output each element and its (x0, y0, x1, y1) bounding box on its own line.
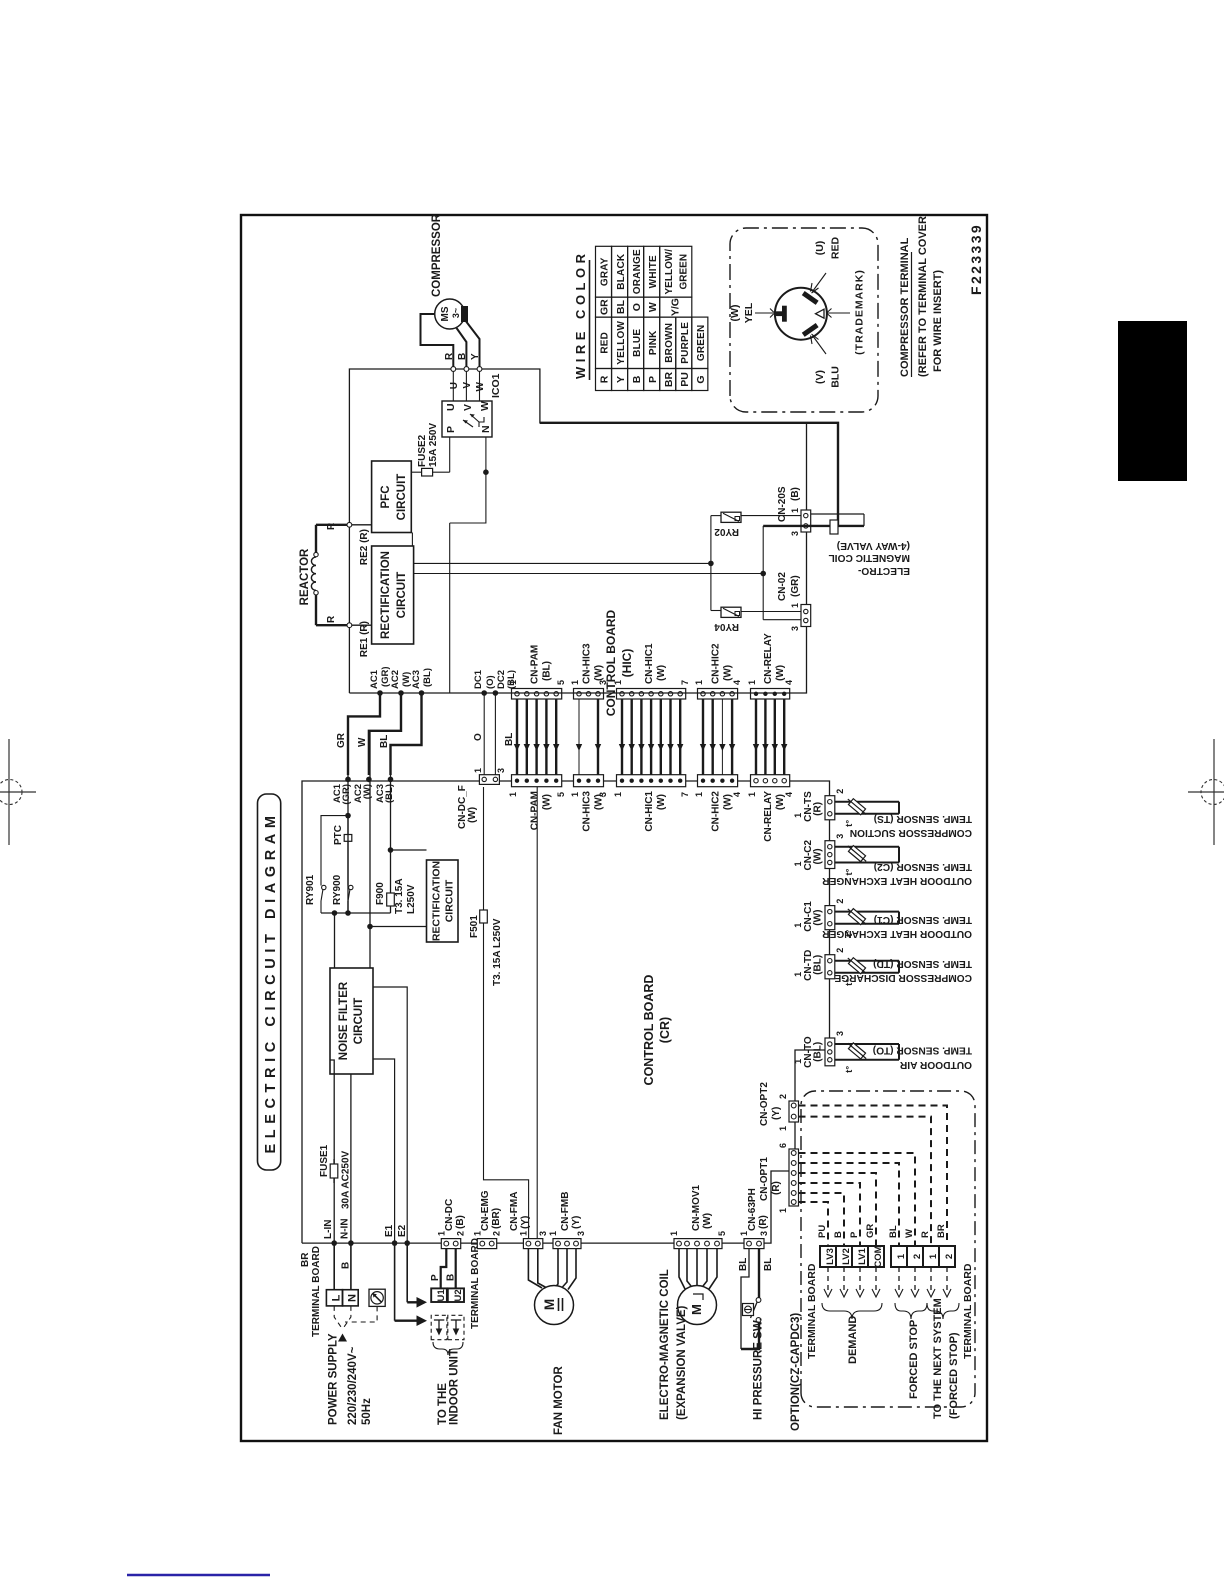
fuse F900 T3.15A L250V (375, 878, 417, 914)
wire label P (430, 1274, 441, 1281)
svg-text:BROWN: BROWN (664, 323, 675, 363)
brace TO THE NEXT SYSTEM group (927, 1303, 959, 1319)
terminal cell LV1 (852, 1246, 868, 1267)
terminal board L cell (326, 1290, 342, 1306)
svg-text:(W): (W) (702, 1213, 713, 1229)
label POWER SUPPLY 220/230/240V~ 50Hz (328, 1333, 374, 1425)
svg-text:B: B (833, 1231, 844, 1238)
terminal cell COM (868, 1245, 884, 1267)
terminal U bar (802, 291, 819, 305)
svg-text:CN-FMA: CN-FMA (509, 1192, 520, 1231)
svg-text:4: 4 (732, 792, 742, 797)
svg-text:CN-HIC3: CN-HIC3 (582, 643, 593, 684)
svg-text:1: 1 (793, 972, 803, 977)
connector CN-EMG (BR) (472, 1190, 502, 1248)
wire BL continues to AC3 jog (390, 745, 392, 850)
node E1 (384, 1224, 397, 1246)
pad RE1 (R) (347, 621, 372, 657)
junction row (vertical tie) (321, 910, 391, 916)
connector CN-FMA (Y) (509, 1192, 548, 1249)
svg-text:1: 1 (747, 792, 757, 797)
noise filter circuit box (330, 968, 373, 1074)
svg-text:t°: t° (844, 1066, 855, 1073)
wire labels R B Y (444, 352, 481, 360)
wire W junction to rectification circuit CR (367, 924, 426, 930)
label OUTDOOR HEAT EXCHANGER TEMP. SENSOR (C2) (822, 861, 972, 886)
label COMPRESSOR TERMINAL (899, 237, 912, 377)
svg-text:(W): (W) (775, 665, 786, 681)
svg-text:(O): (O) (485, 675, 496, 689)
wire label BL (63PH pin1) (738, 1258, 749, 1271)
svg-text:COM: COM (873, 1245, 884, 1267)
svg-text:(4-WAY VALVE): (4-WAY VALVE) (837, 540, 910, 551)
svg-text:AC1: AC1 (369, 669, 380, 689)
svg-text:CN-OPT1: CN-OPT1 (759, 1157, 770, 1201)
svg-text:GREEN: GREEN (696, 325, 707, 362)
svg-text:WIRE COLOR: WIRE COLOR (573, 250, 588, 380)
dashed continuation cell below U2 (448, 1315, 464, 1339)
svg-text:FAN MOTOR: FAN MOTOR (553, 1366, 565, 1435)
svg-text:(CR): (CR) (658, 1017, 672, 1043)
svg-text:CN-02: CN-02 (777, 572, 788, 601)
svg-text:G: G (695, 375, 707, 383)
svg-text:TEMP. SENSOR (C2): TEMP. SENSOR (C2) (874, 861, 972, 872)
pad label DC1 (O) (473, 669, 496, 689)
wire N bus to 4-way valve (540, 423, 838, 526)
svg-text:CN-FMB: CN-FMB (560, 1192, 571, 1231)
svg-text:GR: GR (599, 299, 611, 315)
label TO THE INDOOR UNIT (437, 1349, 461, 1425)
compressor wire U (R) (421, 314, 454, 369)
compressor terminal circle (775, 288, 827, 340)
svg-text:LV2: LV2 (841, 1248, 852, 1265)
svg-text:U1: U1 (436, 1289, 447, 1302)
electro-magnetic coil 4-way valve (763, 514, 864, 534)
svg-text:U: U (449, 382, 460, 389)
brace DEMAND group (822, 1303, 882, 1319)
wire BL junction to rectification circuit CR (391, 849, 427, 851)
terminal cell LV3 (820, 1246, 836, 1267)
svg-text:(FORCED STOP): (FORCED STOP) (948, 1332, 960, 1419)
label ELECTRO-MAGNETIC COIL (EXPANSION VALVE) (659, 1269, 688, 1420)
svg-text:BL: BL (738, 1258, 749, 1271)
svg-text:(BR): (BR) (491, 1208, 502, 1229)
svg-text:R: R (326, 615, 337, 623)
svg-text:OUTDOOR AIR: OUTDOOR AIR (899, 1059, 972, 1070)
svg-text:1: 1 (613, 792, 623, 797)
connector CN-FMB (Y) (548, 1192, 586, 1249)
connector CN-02 (GR) (777, 572, 811, 631)
svg-text:CN-PAM: CN-PAM (530, 791, 541, 830)
svg-text:(GR): (GR) (341, 784, 352, 805)
fuse F1 FUSE1 30A AC250V (319, 1144, 352, 1209)
svg-text:3: 3 (576, 1231, 586, 1236)
wire label PU (817, 1225, 828, 1238)
wire CN-PAM pin3 to CN-FMA pin3 (536, 781, 538, 1239)
compressor wire W (Y) (465, 320, 480, 369)
svg-text:(BL): (BL) (813, 1042, 824, 1062)
svg-text:CONTROL BOARD: CONTROL BOARD (604, 609, 618, 716)
wire label R (920, 1231, 931, 1238)
wire CN-DC pin2 to U2 (B) (455, 1249, 457, 1288)
label CONTROL BOARD (CR) (642, 975, 672, 1086)
svg-text:R: R (326, 522, 337, 530)
svg-text:3: 3 (496, 768, 506, 773)
svg-text:PTC: PTC (333, 825, 344, 845)
wires CN-FMB to fan motor (557, 1249, 577, 1290)
label COMPRESSOR DISCHARGE TEMP. SENSOR (TD) (834, 958, 972, 983)
earth wire E2 arrow to indoor ground (407, 1243, 427, 1308)
reactor coil (311, 525, 349, 625)
svg-text:2: 2 (912, 1254, 923, 1259)
wire label BL (888, 1225, 899, 1238)
wire label B (indoor) (446, 1274, 457, 1281)
svg-text:2: 2 (835, 789, 845, 794)
option dash-dot box CZ-CAPDC3 (801, 1091, 975, 1407)
svg-text:(BL): (BL) (542, 661, 553, 681)
wire AC2 (W) HIC to CR (357, 690, 404, 782)
svg-text:2: 2 (944, 1254, 955, 1259)
svg-text:REACTOR: REACTOR (299, 548, 311, 605)
svg-text:(BL): (BL) (422, 668, 433, 687)
pad label DC2 (BL) (496, 670, 517, 689)
svg-text:RY04: RY04 (714, 621, 739, 632)
terminal cell LV2 (836, 1246, 852, 1267)
svg-text:(HIC): (HIC) (620, 649, 634, 678)
svg-text:CIRCUIT: CIRCUIT (396, 572, 408, 619)
svg-text:BL: BL (615, 300, 627, 315)
label (W) YEL with arrow (729, 302, 775, 323)
svg-text:TO THE: TO THE (437, 1383, 449, 1425)
wire E1 to noise filter (372, 1059, 395, 1243)
svg-text:1: 1 (508, 792, 518, 797)
wire W continues to AC2 pad (369, 731, 371, 927)
svg-text:P: P (445, 426, 457, 433)
svg-text:1: 1 (694, 680, 704, 685)
wire AC3 (BL) HIC to CR (379, 690, 424, 782)
svg-text:COMPRESSOR DISCHARGE: COMPRESSOR DISCHARGE (834, 972, 972, 983)
blue footer rule (127, 1574, 270, 1576)
wire color table (596, 246, 708, 390)
svg-text:1: 1 (896, 1253, 907, 1259)
connector CN-MOV1 (W) (669, 1184, 727, 1248)
svg-text:(W): (W) (656, 665, 667, 681)
svg-text:Y: Y (615, 376, 627, 383)
label ELECTRO-MAGNETIC COIL (4-WAY VALVE) (829, 540, 911, 576)
sensor connector CN-TO (BL) with thermistor (793, 1031, 899, 1073)
sensor connector CN-TD (BL) with thermistor (793, 948, 899, 986)
trademark triangle (816, 309, 825, 318)
svg-text:B: B (457, 353, 468, 360)
label COMPRESSOR (431, 213, 443, 297)
wires CN-MOV1 to expansion valve motor (679, 1249, 717, 1289)
wire GR from AC1 pad (345, 813, 351, 913)
label OUTDOOR AIR TEMP. SENSOR (TO) (873, 1045, 972, 1071)
svg-text:(EXPANSION VALVE): (EXPANSION VALVE) (676, 1305, 688, 1420)
svg-text:15A 250V: 15A 250V (428, 423, 439, 467)
svg-text:ORANGE: ORANGE (632, 249, 643, 294)
svg-text:NOISE FILTER: NOISE FILTER (338, 981, 350, 1060)
fuse F501 T3.15A L250V (469, 910, 503, 986)
svg-text:(BL): (BL) (384, 784, 395, 803)
svg-text:COMPRESSOR TERMINAL: COMPRESSOR TERMINAL (899, 237, 911, 377)
svg-text:BR: BR (936, 1224, 947, 1238)
svg-text:1: 1 (669, 1231, 679, 1236)
earth wire E1 arrow to indoor ground (395, 1243, 427, 1326)
svg-text:(B): (B) (790, 487, 801, 501)
svg-text:L-IN: L-IN (323, 1220, 334, 1239)
svg-text:(B): (B) (455, 1215, 466, 1229)
svg-text:(W): (W) (656, 794, 667, 810)
brace indoor unit group (433, 1342, 463, 1355)
terminal board N cell (343, 1290, 359, 1306)
label TERMINAL BOARD (power supply) (311, 1246, 322, 1337)
svg-text:W: W (357, 737, 368, 747)
svg-text:RE2 (R): RE2 (R) (359, 529, 370, 565)
svg-text:CN-HIC2: CN-HIC2 (711, 791, 722, 832)
svg-text:(GR): (GR) (790, 575, 801, 597)
svg-text:220/230/240V~: 220/230/240V~ (347, 1346, 359, 1425)
connector CN-OPT1 (R) (759, 1143, 799, 1213)
svg-text:3: 3 (790, 626, 800, 631)
svg-text:(W): (W) (813, 848, 824, 864)
svg-text:V: V (462, 404, 474, 411)
label COMPRESSOR SUCTION TEMP. SENSOR (TS) (850, 813, 972, 838)
wire label R (RE2 side) (326, 522, 337, 530)
fuse F2 FUSE2 15A 250V (417, 423, 439, 476)
svg-text:t°: t° (844, 868, 855, 875)
registration mark right (1188, 739, 1224, 845)
svg-text:POWER SUPPLY: POWER SUPPLY (328, 1333, 340, 1425)
svg-text:(W): (W) (594, 794, 605, 810)
pad RE2 (R) (347, 522, 372, 565)
svg-text:W: W (904, 1229, 915, 1238)
svg-text:1: 1 (747, 680, 757, 685)
svg-text:OUTDOOR HEAT EXCHANGER: OUTDOOR HEAT EXCHANGER (822, 928, 972, 939)
compressor motor MS 3~ (435, 299, 465, 329)
svg-text:FUSE1: FUSE1 (319, 1144, 330, 1177)
compressor terminal bar (461, 306, 468, 322)
svg-text:FUSE2: FUSE2 (417, 434, 428, 467)
svg-text:TEMP. SENSOR (C1): TEMP. SENSOR (C1) (874, 914, 972, 925)
svg-text:3: 3 (790, 531, 800, 536)
svg-text:5: 5 (556, 680, 566, 685)
label CONTROL BOARD (HIC) (604, 609, 634, 716)
terminal board U2 cell (448, 1288, 464, 1302)
svg-text:ELECTRO-: ELECTRO- (858, 565, 910, 576)
svg-text:CN-MOV1: CN-MOV1 (691, 1184, 702, 1231)
svg-text:(Y): (Y) (520, 1216, 531, 1229)
svg-text:(U): (U) (814, 241, 826, 256)
svg-text:M: M (689, 1304, 704, 1315)
svg-text:U2: U2 (453, 1289, 464, 1301)
svg-text:PU: PU (679, 372, 691, 387)
svg-text:B: B (446, 1274, 457, 1281)
svg-text:B: B (341, 1262, 352, 1269)
svg-text:F223339: F223339 (968, 223, 984, 295)
svg-text:CN-63PH: CN-63PH (747, 1188, 758, 1231)
label WIRE COLOR (573, 250, 590, 381)
svg-text:1: 1 (793, 861, 803, 866)
svg-text:Y: Y (470, 353, 481, 360)
connector CN-DC_F (W) (457, 768, 506, 829)
svg-text:2: 2 (456, 1231, 466, 1236)
svg-text:M: M (542, 1299, 557, 1310)
svg-text:COMPRESSOR: COMPRESSOR (431, 213, 443, 297)
svg-text:OUTDOOR HEAT EXCHANGER: OUTDOOR HEAT EXCHANGER (822, 875, 972, 886)
svg-text:N: N (346, 1294, 358, 1302)
svg-text:PFC: PFC (380, 486, 392, 509)
wire labels U V W (449, 381, 486, 391)
svg-text:O: O (473, 733, 484, 741)
label FORCED STOP (908, 1320, 920, 1399)
label (V) BLU with arrow (811, 334, 842, 388)
earth screw terminal (369, 1289, 385, 1306)
svg-text:(R): (R) (758, 1215, 769, 1229)
svg-text:BR: BR (663, 372, 675, 388)
terminal W bar (774, 306, 787, 322)
sensor connector CN-C1 (W) with thermistor (793, 899, 899, 937)
svg-text:RY901: RY901 (305, 874, 316, 905)
svg-text:DC1: DC1 (473, 669, 484, 689)
title box ELECTRIC CIRCUIT DIAGRAM (258, 794, 281, 1170)
connector pair CN-RELAY (W) (747, 633, 794, 842)
arrow to power supply (338, 1334, 347, 1342)
dashed lead from earth screw (345, 1306, 377, 1322)
svg-text:OPTION(CZ-CAPDC3): OPTION(CZ-CAPDC3) (790, 1313, 802, 1431)
thermistor PTC (333, 825, 352, 845)
svg-text:t°: t° (844, 820, 855, 827)
connector pair CN-HIC1 (W) (613, 643, 690, 832)
svg-text:5: 5 (717, 1231, 727, 1236)
svg-text:P: P (849, 1231, 860, 1238)
connector CN-63PH (R) (739, 1188, 769, 1248)
svg-text:5: 5 (556, 792, 566, 797)
svg-text:F900: F900 (375, 882, 386, 905)
wire rectification to PFC (411, 533, 413, 547)
pad labels AC1 AC2 AC3 (CR side) (332, 783, 395, 804)
dashed continuation cell below U1 (431, 1315, 447, 1339)
svg-text:W: W (479, 401, 491, 411)
svg-text:1: 1 (570, 680, 580, 685)
svg-text:CN-DC: CN-DC (444, 1199, 455, 1231)
brace FORCED STOP group (895, 1303, 927, 1319)
wire noise filter to W wire (369, 927, 371, 969)
svg-text:L: L (331, 1294, 343, 1301)
svg-text:BL: BL (888, 1225, 899, 1238)
svg-text:TERMINAL BOARD: TERMINAL BOARD (311, 1246, 322, 1337)
dashed lead from power supply to L/N (334, 1306, 351, 1327)
wire DC2 (BL) HIC to CN-DC_F (493, 690, 515, 775)
relay contact RY901 branch (305, 816, 348, 913)
svg-text:GREEN: GREEN (679, 254, 690, 290)
label OPTION(CZ-CAPDC3) (790, 1313, 802, 1431)
svg-text:W: W (475, 381, 486, 391)
svg-text:1: 1 (548, 1231, 558, 1236)
svg-text:N-IN: N-IN (340, 1218, 351, 1239)
svg-text:(W): (W) (723, 665, 734, 681)
fan motor M (535, 1286, 574, 1325)
wire CN-DC pin1 to U1 (P) (441, 1249, 447, 1288)
wire N-IN to noise filter (350, 1074, 352, 1243)
label RY02 (714, 526, 739, 537)
svg-text:(Y): (Y) (571, 1216, 582, 1229)
svg-text:PU: PU (817, 1225, 828, 1238)
sensor connector CN-TS (R) with thermistor (793, 789, 899, 827)
connector pair CN-PAM (BL)/(W) (508, 645, 566, 831)
wire PFC to ICO1 P with FUSE2 (411, 437, 449, 472)
connector pair CN-HIC3 (W) (570, 643, 608, 832)
svg-text:(Y): (Y) (771, 1107, 782, 1120)
svg-text:1: 1 (793, 1059, 803, 1064)
wire GR continues from PTC to AC1 jog (347, 716, 349, 834)
svg-text:CN-PAM: CN-PAM (530, 645, 541, 684)
wire RY04 to CN-02 pin1 (741, 611, 801, 613)
svg-text:ELECTRO-MAGNETIC COIL: ELECTRO-MAGNETIC COIL (659, 1269, 671, 1420)
pad labels AC1 AC2 AC3 (HIC side) (369, 666, 433, 689)
svg-text:BLUE: BLUE (632, 329, 643, 357)
terminal cell 1a (891, 1246, 907, 1267)
svg-text:30A AC250V: 30A AC250V (341, 1150, 352, 1209)
registration mark left (0, 739, 36, 845)
svg-text:(W): (W) (775, 794, 786, 810)
wire CN-DC_F pin1 with fuse F501 to CN-FMA pin1 (484, 787, 529, 1239)
wire RY02/RY04 tie (708, 516, 721, 611)
svg-text:ICO1: ICO1 (490, 373, 502, 398)
svg-text:YELLOW/: YELLOW/ (664, 249, 675, 295)
expansion valve coil motor M (678, 1286, 717, 1325)
svg-text:RY02: RY02 (714, 526, 739, 537)
svg-text:3: 3 (835, 1031, 845, 1036)
compressor wire V (B) (457, 328, 467, 369)
svg-text:CN-OPT2: CN-OPT2 (759, 1082, 770, 1126)
svg-text:PURPLE: PURPLE (680, 322, 691, 364)
svg-text:1: 1 (778, 1208, 788, 1213)
svg-text:FORCED STOP: FORCED STOP (908, 1320, 920, 1399)
connector pair CN-HIC2 (W) (694, 643, 742, 832)
wire AC1 (GR) HIC to CR (336, 690, 383, 782)
label TERMINAL BOARD (option upper) (806, 1263, 818, 1359)
svg-text:CN-EMG: CN-EMG (480, 1190, 491, 1231)
node E2 (397, 1224, 410, 1246)
svg-text:RY900: RY900 (332, 874, 343, 905)
terminal V bar (802, 323, 819, 337)
svg-text:3: 3 (538, 1231, 548, 1236)
hi pressure switch body (743, 1304, 754, 1316)
svg-text:1: 1 (793, 813, 803, 818)
label TO THE NEXT SYSTEM (FORCED STOP) (932, 1298, 960, 1419)
wire N-IN to N cell (350, 1243, 352, 1290)
svg-text:CN-RELAY: CN-RELAY (763, 633, 774, 684)
connector CN-OPT2 (Y) (759, 1082, 799, 1131)
svg-text:(W): (W) (723, 794, 734, 810)
svg-text:2: 2 (835, 948, 845, 953)
sensor connector CN-C2 (W) with thermistor (793, 834, 899, 876)
svg-text:1: 1 (570, 792, 580, 797)
pads U V W on HIC edge (451, 367, 482, 401)
relay RY04 (721, 607, 741, 617)
svg-text:CN-HIC1: CN-HIC1 (644, 643, 655, 684)
relay RY02 (721, 512, 741, 522)
control board CR outline (302, 781, 830, 1243)
svg-text:(TRADEMARK): (TRADEMARK) (854, 269, 866, 355)
svg-text:RECTIFICATION: RECTIFICATION (431, 861, 443, 941)
svg-text:6: 6 (778, 1143, 788, 1148)
label DEMAND (847, 1316, 859, 1364)
svg-text:TERMINAL BOARD: TERMINAL BOARD (962, 1263, 974, 1359)
svg-text:T3. 15A: T3. 15A (394, 878, 405, 914)
PFC circuit box (372, 461, 412, 533)
